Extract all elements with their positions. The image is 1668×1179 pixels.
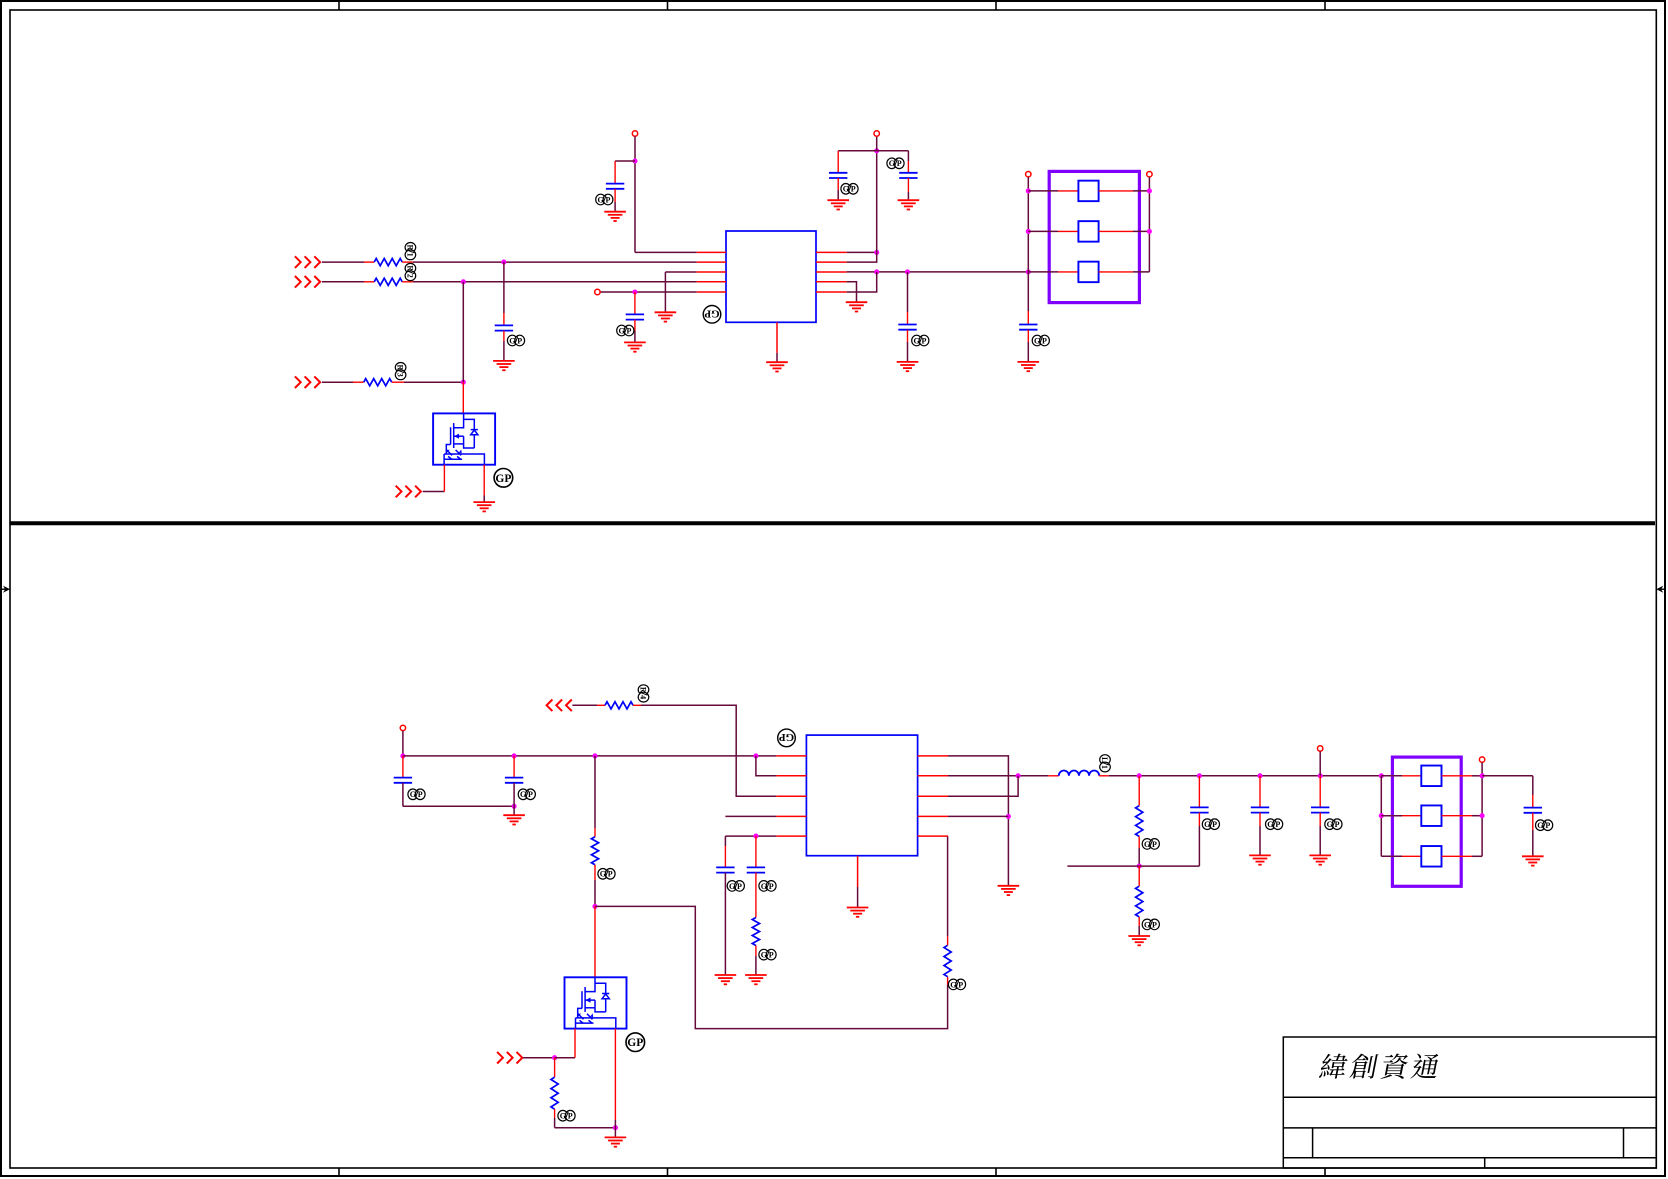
- wire R8 to ground: [755, 956, 757, 975]
- capacitor C13: [1251, 807, 1269, 812]
- section divider line: [10, 521, 1655, 525]
- U1 right pin y=281.8: [816, 281, 847, 283]
- wire U2 pin8 elbow: [948, 776, 1018, 796]
- power node J2: [1479, 757, 1484, 762]
- C15 bottom lead: [1532, 813, 1534, 830]
- U2 left pin y=816.4: [776, 815, 806, 817]
- svg-text:G: G: [560, 1112, 566, 1121]
- power node VIN: [400, 725, 405, 730]
- svg-text:P: P: [608, 870, 613, 879]
- wire row2 junction down: [462, 282, 464, 382]
- junction VIN: [400, 753, 405, 758]
- wire C10 to ground: [724, 873, 726, 975]
- capacitor C2: [626, 314, 644, 319]
- U1 right pin y=292.0: [816, 291, 847, 293]
- svg-text:G: G: [1327, 820, 1333, 829]
- transistor Q2: [565, 977, 627, 1028]
- wire U1 pin1: [635, 251, 697, 253]
- svg-text:P: P: [897, 159, 902, 168]
- transistor Q1: [433, 413, 495, 464]
- svg-text:G: G: [950, 980, 956, 989]
- wire U2 pin4 open: [725, 815, 776, 817]
- wire port to Q1: [423, 491, 445, 493]
- inductor L1: [1059, 771, 1099, 776]
- wire U2 pin5: [725, 835, 776, 837]
- R10 bottom lead: [1138, 917, 1140, 926]
- wire to C5: [877, 150, 909, 152]
- svg-text:P: P: [568, 1112, 573, 1121]
- label C8: [518, 789, 535, 800]
- C15 top lead: [1532, 795, 1534, 808]
- capacitor C12: [1190, 807, 1208, 812]
- label R8: [759, 949, 776, 960]
- label C12: [1202, 819, 1219, 830]
- J2 row1 left lead: [1402, 775, 1421, 777]
- capacitor C14: [1311, 807, 1329, 812]
- U2 right pin y=796.2: [918, 795, 948, 797]
- R5 bottom lead: [594, 865, 596, 880]
- IC U1: [726, 231, 816, 322]
- wire U1 gnd pin: [776, 353, 778, 362]
- capacitor C10: [716, 867, 734, 872]
- C12 bottom lead: [1198, 813, 1200, 826]
- label C13: [1266, 819, 1283, 830]
- svg-text:P: P: [769, 882, 774, 891]
- junction pin9 gnd: [1006, 814, 1011, 819]
- C7 bottom lead: [1027, 330, 1029, 342]
- wire U1 pin6: [847, 251, 877, 253]
- J2 row1 right lead: [1442, 775, 1472, 777]
- wire J1 row2 right: [1133, 230, 1149, 232]
- IC U2: [806, 735, 917, 856]
- power node J1 left: [1026, 172, 1031, 177]
- designator U2: [778, 729, 796, 747]
- svg-text:P: P: [627, 326, 632, 335]
- wire power stub: [634, 136, 636, 161]
- svg-text:P: P: [1275, 820, 1280, 829]
- junction C12: [1197, 773, 1202, 778]
- resistor R9: [1136, 806, 1143, 837]
- R6 top lead: [554, 1058, 556, 1078]
- ground C13: [1249, 855, 1271, 864]
- capacitor C1: [606, 184, 624, 189]
- svg-text:R: R: [639, 687, 648, 693]
- svg-text:R: R: [406, 265, 415, 271]
- ground R8: [745, 975, 767, 984]
- ground C6: [897, 362, 919, 371]
- U2 right pin y=775.8: [918, 775, 948, 777]
- U1 right pin y=262.1: [816, 261, 847, 263]
- U1 right pin y=252.4: [816, 251, 847, 253]
- R6 bottom lead: [554, 1109, 556, 1118]
- ground C3: [493, 361, 515, 370]
- wire C2 to ground: [634, 331, 636, 342]
- wire J2 row2 right: [1472, 815, 1482, 817]
- junction pin8/C6: [905, 269, 910, 274]
- R9 bottom lead: [1138, 836, 1140, 848]
- R4 left lead: [597, 704, 605, 706]
- junction J2 row1 right: [1480, 773, 1485, 778]
- ground C8: [503, 815, 525, 824]
- border tick top x=996: [995, 1, 997, 10]
- U1 left pin y=292.0: [697, 291, 726, 293]
- C3 bottom lead: [503, 331, 505, 341]
- svg-text:GP: GP: [779, 731, 795, 743]
- ground U1 pin9: [846, 302, 868, 311]
- capacitor C8: [505, 778, 523, 783]
- R9 top lead: [1138, 776, 1140, 806]
- wire feedback loop: [595, 906, 948, 1028]
- C4 bottom lead: [837, 178, 839, 190]
- wire J1 row2 left: [1028, 230, 1058, 232]
- border tick bottom x=1325: [1324, 1168, 1326, 1176]
- svg-text:P: P: [1335, 820, 1340, 829]
- U2 right pin y=816.4: [918, 815, 948, 817]
- ground C14: [1309, 855, 1331, 864]
- svg-text:4: 4: [639, 695, 648, 699]
- wire C6 to ground: [907, 342, 909, 362]
- label C5: [887, 158, 904, 169]
- C7 top lead: [1027, 311, 1029, 325]
- wire U2 pin9: [948, 815, 1008, 817]
- wire Q2 to ground: [614, 1120, 616, 1137]
- U1 left pin y=281.8: [697, 281, 726, 283]
- C1 bottom lead: [614, 189, 616, 202]
- R5 top lead: [594, 828, 596, 837]
- C6 bottom lead: [907, 330, 909, 342]
- label C14: [1325, 819, 1342, 830]
- wire row1 to R1: [322, 261, 364, 263]
- svg-text:P: P: [922, 336, 927, 345]
- junction pin8/pin10: [874, 269, 879, 274]
- svg-text:2: 2: [406, 274, 415, 278]
- C13 bottom lead: [1259, 813, 1261, 826]
- wire C15 drop: [1532, 776, 1534, 795]
- junction row3: [461, 380, 466, 385]
- power node VCC2: [874, 131, 879, 136]
- lead to Q1 drain: [462, 382, 464, 413]
- wire U1 pin9 to ground: [847, 282, 857, 302]
- svg-text:G: G: [618, 326, 624, 335]
- wire J2 row3 right: [1472, 855, 1482, 857]
- Q2 left bottom lead: [574, 1029, 576, 1058]
- svg-text:G: G: [600, 870, 606, 879]
- wire U2 gnd pin: [857, 887, 859, 908]
- border tick bottom x=339: [338, 1168, 340, 1176]
- lead junction to Q2 drain: [594, 906, 596, 977]
- svg-text:G: G: [597, 195, 603, 204]
- svg-text:3: 3: [396, 373, 405, 377]
- J1 row1 right lead: [1099, 190, 1133, 192]
- connector J1: [1049, 171, 1139, 302]
- designator GP: [626, 1033, 645, 1052]
- wire C14 to ground: [1319, 826, 1321, 855]
- U2 left pin y=755.9: [776, 755, 806, 757]
- wire U1 pin3: [665, 271, 696, 273]
- J1 row2 left lead: [1058, 230, 1078, 232]
- label C1: [596, 194, 613, 205]
- wire R6 bottom: [554, 1118, 556, 1128]
- junction C14: [1318, 773, 1323, 778]
- R7 top lead: [947, 936, 949, 945]
- C5 top lead: [907, 161, 909, 173]
- R3 left lead: [353, 381, 364, 383]
- wire J1 left rail: [1027, 177, 1029, 311]
- capacitor C5: [899, 173, 917, 178]
- wire row2 to U1 pin4: [413, 281, 697, 283]
- junction J1 row1 left: [1026, 188, 1031, 193]
- junction row2/Q1 gate: [461, 279, 466, 284]
- C2 bottom lead: [634, 320, 636, 331]
- U2 left pin y=796.2: [776, 795, 806, 797]
- C8 top lead: [513, 756, 515, 778]
- R7 bottom lead: [947, 977, 949, 985]
- svg-text:G: G: [913, 336, 919, 345]
- wire rail to R5: [594, 756, 596, 828]
- wire R5 to junction: [594, 880, 596, 906]
- capacitor C9: [394, 778, 412, 783]
- svg-text:P: P: [517, 336, 522, 345]
- C11 to R8 lead: [755, 873, 757, 918]
- R4 right lead: [633, 704, 641, 706]
- border tick bottom x=996: [995, 1168, 997, 1176]
- border tick top x=339: [338, 1, 340, 10]
- label R2: [405, 263, 416, 280]
- R1 right lead: [402, 261, 413, 263]
- svg-text:G: G: [1204, 820, 1210, 829]
- resistor R8: [752, 918, 759, 946]
- R10 top lead: [1138, 866, 1140, 886]
- junction R5: [592, 753, 597, 758]
- R2 right lead: [402, 281, 413, 283]
- label R3: [395, 363, 406, 380]
- wire Q1 to ground: [483, 496, 485, 503]
- wire C9 to C8 bottom: [403, 805, 514, 807]
- border tick bottom x=667.5: [667, 1168, 669, 1176]
- svg-text:GP: GP: [627, 1037, 643, 1049]
- junction R5/Q2: [592, 904, 597, 909]
- svg-text:G: G: [1144, 920, 1150, 929]
- J1 row2 right lead: [1099, 230, 1133, 232]
- junction R9: [1137, 773, 1142, 778]
- C12 top lead: [1198, 776, 1200, 808]
- connector J2: [1392, 757, 1461, 886]
- svg-text:R: R: [406, 245, 415, 251]
- port arrows Q1 gate2: [396, 486, 421, 498]
- junction pin7/pin8: [1016, 773, 1021, 778]
- svg-text:R: R: [396, 365, 405, 371]
- wire C5 to ground: [907, 192, 909, 200]
- wire port to junction: [523, 1057, 555, 1059]
- capacitor C6: [898, 325, 916, 330]
- C5 bottom lead: [907, 178, 909, 192]
- ground Q1: [473, 502, 495, 511]
- C3 top lead: [503, 313, 505, 325]
- wire VOUT stub: [1319, 751, 1321, 775]
- R8 bottom lead: [755, 946, 757, 957]
- svg-text:P: P: [418, 790, 423, 799]
- junction C8 bottom: [512, 804, 517, 809]
- svg-text:P: P: [606, 195, 611, 204]
- open node pin5: [595, 289, 600, 294]
- J2 row2 right lead: [1442, 815, 1472, 817]
- junction pin6/pin7: [874, 250, 879, 255]
- power node VCC1: [632, 131, 637, 136]
- wire J2 row3 left: [1381, 855, 1402, 857]
- svg-text:G: G: [1537, 821, 1543, 830]
- wire U2 pin6 to ground: [948, 756, 1008, 886]
- wire U2 pin10 down: [947, 836, 949, 936]
- junction row1/C3: [501, 260, 506, 265]
- C4 top lead: [837, 151, 839, 173]
- U1 left pin y=272.0: [697, 271, 726, 273]
- label C11: [759, 881, 776, 892]
- wire J2 left rail: [1380, 776, 1382, 857]
- J1 row3 left lead: [1058, 271, 1078, 273]
- wire J2 row1 right: [1472, 775, 1482, 777]
- wire C5 drop: [907, 151, 909, 161]
- wire C13 to ground: [1259, 826, 1261, 855]
- label C2: [617, 325, 634, 336]
- company name 緯創資通 (drawn as vector paths): [1319, 1054, 1441, 1079]
- C14 bottom lead: [1319, 813, 1321, 826]
- ground C15: [1522, 856, 1544, 865]
- wire output rail: [1109, 775, 1382, 777]
- label C10: [727, 881, 744, 892]
- connector J1 pin2: [1078, 221, 1098, 242]
- resistor R5: [591, 837, 598, 865]
- U2 left pin y=775.8: [776, 775, 806, 777]
- wire to C15: [1482, 775, 1533, 777]
- wire C3 to ground: [503, 341, 505, 361]
- border arrow right: [1660, 588, 1665, 590]
- port arrows row1: [295, 256, 320, 268]
- ground C5: [898, 200, 920, 209]
- designator U1: [703, 306, 721, 324]
- svg-text:GP: GP: [704, 307, 720, 319]
- resistor R3: [364, 379, 392, 386]
- port arrows row2: [295, 276, 320, 288]
- port arrows FB: [547, 700, 572, 712]
- svg-text:P: P: [528, 790, 533, 799]
- connector J2 pin3: [1421, 846, 1441, 867]
- svg-text:P: P: [737, 882, 742, 891]
- svg-text:G: G: [843, 185, 849, 194]
- resistor R2: [374, 278, 402, 285]
- wire R9 to tap: [1138, 848, 1140, 866]
- U2 right pin y=836.1: [918, 835, 948, 837]
- resistor R7: [944, 945, 951, 976]
- title block: [1283, 1037, 1656, 1168]
- connector J2 pin2: [1421, 805, 1441, 826]
- U2 left pin y=836.1: [776, 835, 806, 837]
- L1 right lead: [1099, 775, 1109, 777]
- wire J2 row1 left: [1381, 775, 1402, 777]
- ground Q2: [605, 1137, 627, 1146]
- junction J1 row2 left: [1026, 229, 1031, 234]
- label R9: [1142, 839, 1159, 850]
- svg-text:G: G: [1144, 840, 1150, 849]
- capacitor C15: [1524, 808, 1542, 813]
- R2 left lead: [364, 281, 374, 283]
- svg-text:L: L: [1100, 757, 1109, 762]
- wire VIN rail: [403, 755, 776, 757]
- svg-text:GP: GP: [495, 473, 511, 485]
- wire C8 to ground: [513, 783, 515, 815]
- junction power/C1: [632, 158, 637, 163]
- ground R10: [1128, 936, 1150, 945]
- J1 row1 left lead: [1058, 190, 1078, 192]
- wire C1 to ground: [614, 202, 616, 212]
- C9 top lead: [402, 756, 404, 778]
- junction right power: [874, 148, 879, 153]
- wire right power rail: [876, 151, 878, 253]
- C13 top lead: [1259, 776, 1261, 808]
- wire power rail down: [634, 161, 636, 252]
- designator GP: [494, 469, 513, 488]
- border tick top x=1325: [1324, 1, 1326, 10]
- wire FB to R4: [572, 704, 597, 706]
- wire J1 row1 left: [1028, 190, 1058, 192]
- wire to C4: [838, 150, 877, 152]
- wire row1 to U1 pin2: [413, 261, 697, 263]
- svg-text:G: G: [761, 951, 767, 960]
- svg-text:1: 1: [406, 253, 415, 257]
- wire R4 to U2 pin3: [641, 705, 776, 796]
- wire J1 row1 right: [1133, 190, 1149, 192]
- C6 top lead: [907, 312, 909, 325]
- ground C2: [624, 342, 646, 351]
- wire J1 row3 left: [1028, 271, 1058, 273]
- port arrows row3: [295, 376, 320, 388]
- wire row3 to R3: [322, 381, 353, 383]
- junction C8: [512, 753, 517, 758]
- junction U2 pin1: [753, 753, 758, 758]
- svg-text:P: P: [1152, 920, 1157, 929]
- label C3: [507, 335, 524, 346]
- wire divider tap: [1067, 865, 1199, 867]
- J1 row3 right lead: [1099, 271, 1133, 273]
- wire C9 bottom: [402, 783, 404, 807]
- junction J1 row3: [1026, 269, 1031, 274]
- label L1: [1100, 755, 1111, 772]
- svg-text:P: P: [769, 951, 774, 960]
- wire J2 row2 left: [1381, 815, 1402, 817]
- wire to C1: [615, 160, 635, 162]
- label C6: [912, 335, 929, 346]
- svg-text:G: G: [509, 336, 515, 345]
- wire pin3 down: [664, 272, 666, 312]
- label C4: [841, 184, 858, 195]
- svg-text:G: G: [729, 882, 735, 891]
- resistor R6: [551, 1077, 558, 1109]
- junction C11: [753, 834, 758, 839]
- connector J1 pin1: [1078, 181, 1098, 202]
- ground C10: [715, 975, 737, 984]
- junction J1 row1 right: [1147, 188, 1152, 193]
- C14 top lead: [1319, 776, 1321, 808]
- R1 left lead: [364, 261, 374, 263]
- wire down to C6: [907, 272, 909, 312]
- svg-text:P: P: [851, 185, 856, 194]
- junction C13: [1257, 773, 1262, 778]
- wire C12 to tap: [1198, 826, 1200, 866]
- junction Q2 ground: [613, 1125, 618, 1130]
- svg-text:G: G: [1034, 336, 1040, 345]
- ground C7: [1018, 362, 1040, 371]
- svg-text:G: G: [1267, 820, 1273, 829]
- svg-text:G: G: [410, 790, 416, 799]
